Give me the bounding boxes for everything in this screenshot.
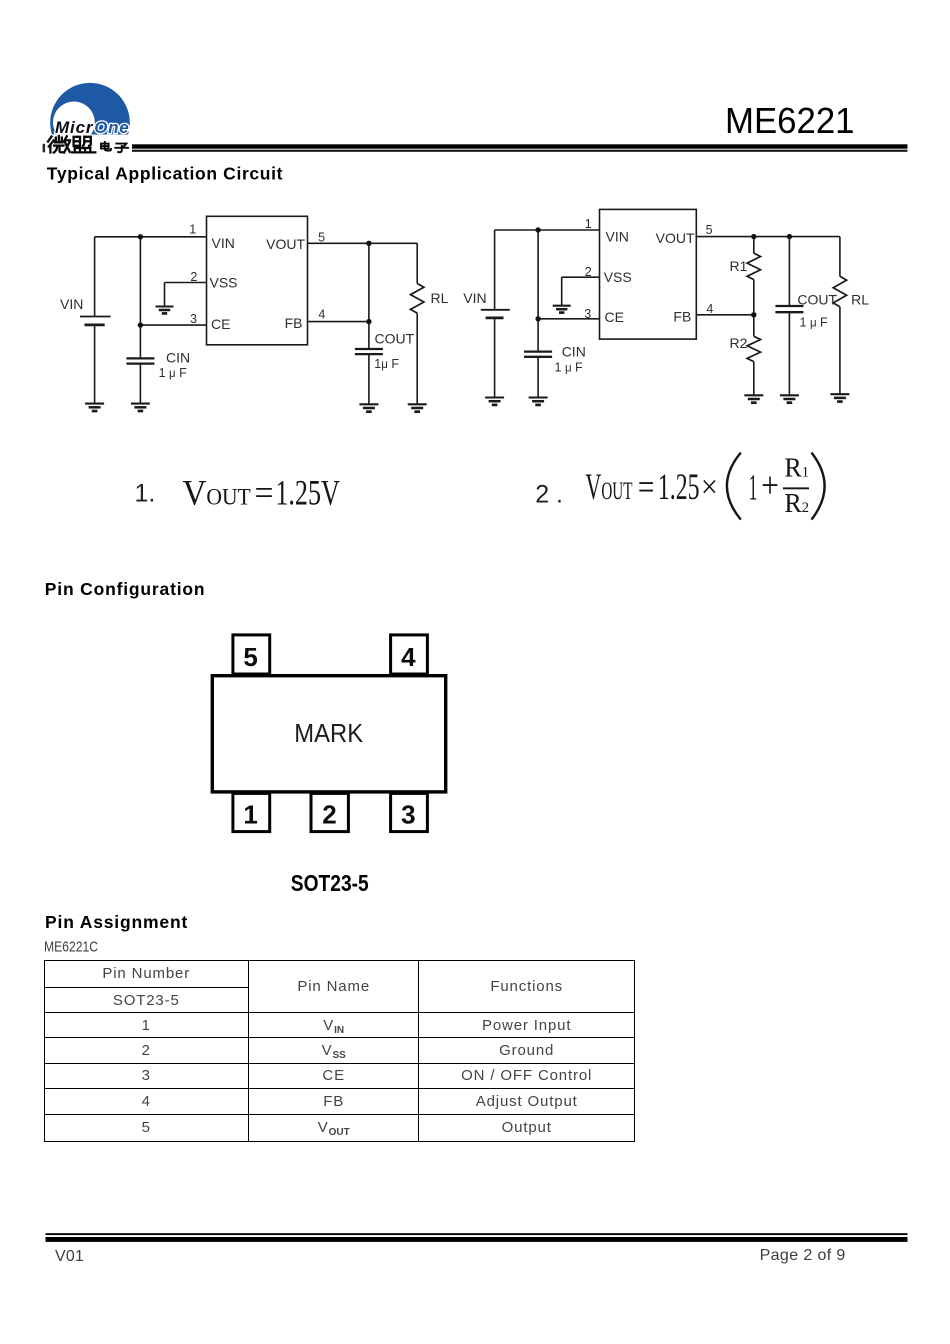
svg-text:VOUT: VOUT xyxy=(656,230,695,246)
svg-text:VOUT: VOUT xyxy=(585,466,632,507)
svg-text:Pin Assignment: Pin Assignment xyxy=(45,912,187,932)
svg-text:One: One xyxy=(94,118,129,137)
svg-text:1.: 1. xyxy=(135,480,156,508)
svg-text:VSS: VSS xyxy=(210,275,238,291)
svg-text:VOUT: VOUT xyxy=(266,236,305,252)
svg-text:1 μ F: 1 μ F xyxy=(800,315,829,329)
svg-text:5: 5 xyxy=(706,223,713,237)
svg-text:CE: CE xyxy=(605,309,624,325)
svg-text:RL: RL xyxy=(851,292,869,308)
svg-text:VSS: VSS xyxy=(604,269,632,285)
svg-text:Typical Application Circuit: Typical Application Circuit xyxy=(47,164,283,184)
svg-text:4: 4 xyxy=(401,642,416,672)
svg-text:=: = xyxy=(638,466,655,507)
svg-text:1.25V: 1.25V xyxy=(275,473,339,513)
svg-text:2: 2 xyxy=(322,800,336,830)
svg-text:3: 3 xyxy=(401,800,415,830)
svg-text:2 .: 2 . xyxy=(535,480,563,508)
svg-text:RL: RL xyxy=(431,290,449,306)
svg-text:3: 3 xyxy=(584,307,591,321)
svg-text:VOUT: VOUT xyxy=(183,473,251,513)
svg-text:R1: R1 xyxy=(784,453,809,483)
svg-text:4: 4 xyxy=(706,302,713,316)
svg-text:1: 1 xyxy=(585,217,592,231)
svg-text:FB: FB xyxy=(285,315,303,331)
svg-text:VIN: VIN xyxy=(463,290,486,306)
svg-text:+: + xyxy=(761,465,779,506)
svg-text:1 μ F: 1 μ F xyxy=(159,366,188,380)
svg-text:ME6221C: ME6221C xyxy=(44,938,98,955)
svg-text:R1: R1 xyxy=(730,258,748,274)
svg-text:CIN: CIN xyxy=(166,349,190,365)
svg-text:VIN: VIN xyxy=(60,296,83,312)
svg-text:1μ F: 1μ F xyxy=(374,357,399,371)
svg-text:COUT: COUT xyxy=(375,331,415,347)
svg-text:R2: R2 xyxy=(730,335,748,351)
svg-text:ME6221: ME6221 xyxy=(725,100,855,141)
svg-text:VIN: VIN xyxy=(212,235,235,251)
svg-text:VIN: VIN xyxy=(606,228,629,244)
svg-text:5: 5 xyxy=(318,230,325,244)
svg-text:CIN: CIN xyxy=(562,344,586,360)
svg-text:5: 5 xyxy=(243,642,257,672)
svg-text:Page 2 of 9: Page 2 of 9 xyxy=(760,1247,846,1264)
svg-text:4: 4 xyxy=(318,308,325,322)
svg-text:SOT23-5: SOT23-5 xyxy=(291,870,369,896)
svg-text:CE: CE xyxy=(211,316,230,332)
svg-text:2: 2 xyxy=(190,270,197,284)
svg-text:Pin Configuration: Pin Configuration xyxy=(45,579,205,599)
svg-text:1 μ F: 1 μ F xyxy=(555,360,584,374)
svg-text:1: 1 xyxy=(189,223,196,237)
svg-text:1.25: 1.25 xyxy=(658,466,700,507)
svg-text:=: = xyxy=(255,473,274,513)
svg-text:FB: FB xyxy=(673,309,691,325)
svg-text:R2: R2 xyxy=(784,488,809,518)
svg-text:×: × xyxy=(701,470,718,506)
svg-text:1: 1 xyxy=(749,467,758,508)
svg-text:MARK: MARK xyxy=(294,720,363,748)
svg-text:3: 3 xyxy=(190,312,197,326)
svg-text:V01: V01 xyxy=(55,1248,84,1265)
svg-text:Micr: Micr xyxy=(55,118,94,137)
svg-text:1: 1 xyxy=(243,800,257,830)
svg-text:2: 2 xyxy=(585,265,592,279)
svg-text:COUT: COUT xyxy=(797,292,837,308)
